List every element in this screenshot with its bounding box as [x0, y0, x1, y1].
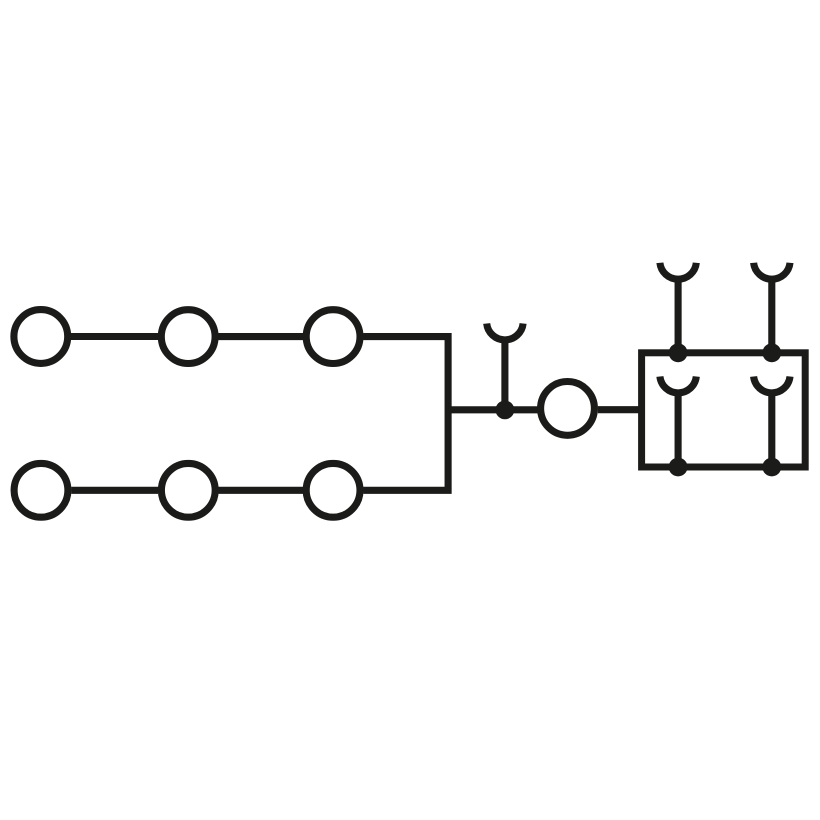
plug-in connection stem (middle tap): [501, 338, 508, 410]
plug-in connection socket symbol (middle tap): [487, 324, 523, 340]
terminal point 3 (middle circle): [541, 382, 595, 436]
plug-in connection stem (top external left): [675, 277, 682, 353]
plug-in connection stem (top external right): [768, 277, 775, 353]
junction node dot (middle tap): [496, 401, 515, 420]
terminal point 1.1 (top row circle 1): [14, 310, 68, 364]
plug-in connection socket symbol (top external right): [754, 263, 790, 279]
terminal point 2.2 (bottom row circle 2): [161, 463, 215, 517]
plug-in connection stem (inside box right): [768, 391, 775, 468]
wire: middle circle to function block: [598, 406, 644, 413]
wire branch: bus to junction node: [448, 406, 537, 413]
plug-in connection socket symbol (inside box right): [754, 377, 790, 393]
plug-in connection socket symbol (top external left): [660, 263, 696, 279]
terminal point 1.3 (top row circle 3): [306, 310, 360, 364]
junction node dot (box top left): [669, 343, 688, 362]
junction node dot (box bottom right): [762, 458, 781, 477]
plug-in connection stem (inside box left): [675, 391, 682, 468]
junction node dot (box bottom left): [669, 458, 688, 477]
plug-in connection socket symbol (inside box left): [660, 377, 696, 393]
terminal point 2.1 (bottom row circle 1): [14, 463, 68, 517]
wire top row: terminal 1.2 to 1.3: [218, 333, 303, 340]
wire top row: terminal 1.1 to 1.2: [71, 333, 158, 340]
terminal point 1.2 (top row circle 2): [161, 310, 215, 364]
wire bottom row: terminal 2.1 to 2.2: [71, 487, 158, 494]
wire bus: top row to bottom row vertical connector: [363, 337, 448, 491]
wire bottom row: terminal 2.2 to 2.3: [219, 487, 304, 494]
function block box: [642, 353, 806, 467]
terminal point 2.3 (bottom row circle 3): [306, 463, 360, 517]
junction node dot (box top right): [762, 343, 781, 362]
